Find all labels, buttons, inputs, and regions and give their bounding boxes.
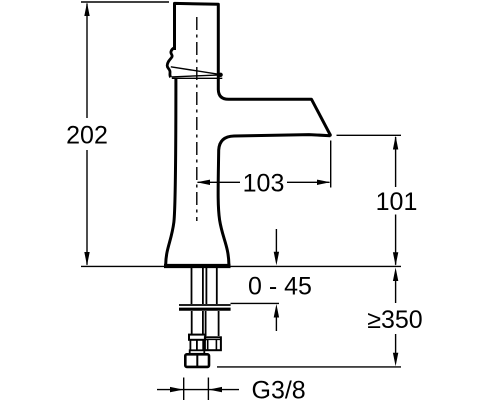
svg-text:G3/8: G3/8 bbox=[252, 377, 306, 400]
svg-text:0 - 45: 0 - 45 bbox=[248, 273, 312, 301]
svg-text:103: 103 bbox=[243, 170, 285, 198]
svg-text:202: 202 bbox=[66, 121, 108, 149]
svg-text:101: 101 bbox=[376, 188, 418, 216]
svg-text:≥350: ≥350 bbox=[367, 306, 422, 334]
